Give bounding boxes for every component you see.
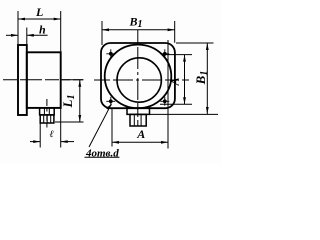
svg-text:L: L	[35, 5, 43, 19]
svg-text:h: h	[39, 23, 46, 37]
svg-text:A: A	[167, 77, 181, 86]
svg-text:ℓ: ℓ	[50, 129, 54, 140]
svg-text:A: A	[136, 127, 145, 141]
svg-text:4отв.d: 4отв.d	[85, 147, 119, 159]
